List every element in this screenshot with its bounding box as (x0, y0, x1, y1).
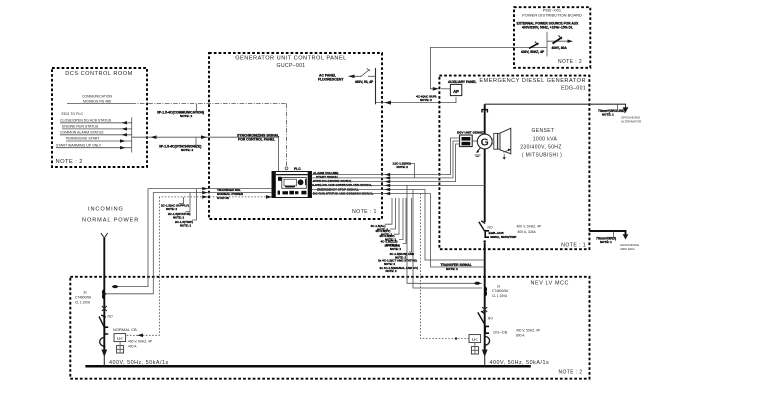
svg-text:GENERATOR UNIT CONTROL PANE: GENERATOR UNIT CONTROL PANEL (235, 56, 347, 62)
svg-text:ENGINE RUN STATUS: ENGINE RUN STATUS (62, 124, 99, 128)
test point X incoming (102, 306, 107, 311)
undervoltage release U< box DG (469, 335, 481, 343)
svg-text:400 V, 50HZ, 4P: 400 V, 50HZ, 4P (128, 339, 153, 343)
PDB power distribution board box (514, 7, 590, 68)
svg-text:CT4800/5A: CT4800/5A (75, 295, 92, 299)
svg-text:U<: U< (117, 336, 123, 341)
wire ECM to G (472, 140, 477, 142)
riser normal CB to busbar (103, 356, 105, 366)
svg-text:400V/230V, 50HZ, +10%/–15% DL: 400V/230V, 50HZ, +10%/–15% DL (522, 26, 573, 30)
GUCP generator unit control panel box (209, 53, 382, 219)
svg-text:( MITSUBISHI ): ( MITSUBISHI ) (522, 153, 562, 159)
svg-text:NOTE: 2: NOTE: 2 (180, 224, 191, 228)
EDG emergency diesel generator box (439, 76, 589, 250)
diesel engine horn (500, 128, 511, 154)
wire L3 dashed PLC left to normal UV release (159, 196, 272, 198)
fuse-switch PDB left (512, 47, 547, 49)
wire w2 PLC to ECM (312, 141, 460, 178)
svg-text:FOR CONTROL PANEL: FOR CONTROL PANEL (238, 138, 275, 142)
svg-text:NOTE: 2: NOTE: 2 (420, 98, 432, 102)
arrows into GUCP right edge (385, 173, 391, 195)
svg-text:EMERGENCY DIESEL GENERATOR: EMERGENCY DIESEL GENERATOR (479, 78, 586, 84)
svg-text:400V, 50, 4P: 400V, 50, 4P (355, 80, 374, 84)
svg-text:DCS CONTROL ROOM: DCS CONTROL ROOM (65, 71, 132, 77)
node PDB riser (546, 32, 548, 57)
svg-text:NO: NO (488, 317, 493, 321)
engine control module box (460, 135, 473, 147)
engine ground (503, 154, 505, 158)
arc on DG CB line (485, 337, 489, 345)
svg-text:EDG–001: EDG–001 (561, 85, 586, 91)
svg-text:400 V, 50HZ, 4P: 400 V, 50HZ, 4P (516, 328, 541, 332)
heavy generator feeder riser (484, 104, 486, 222)
wire PDB line to AP (441, 88, 450, 90)
engine inner arrow (503, 150, 509, 153)
svg-text:GENSET: GENSET (532, 128, 555, 134)
arrow down to busbar DG (484, 346, 486, 350)
svg-text:NOTE : 2: NOTE : 2 (56, 159, 83, 165)
wire PDB to auxiliary panel (430, 47, 514, 88)
CT hooks incoming (103, 290, 104, 299)
node DCS signal bus (131, 117, 133, 152)
svg-text:400V, 50HZ, 4P: 400V, 50HZ, 4P (521, 50, 545, 54)
svg-text:AP: AP (453, 89, 459, 94)
svg-text:NOTE: 2: NOTE: 2 (386, 269, 397, 273)
wire grounding 400V EDG (589, 231, 625, 235)
arrow into GUCP at feed (385, 101, 392, 105)
fuse-switch AC panel supply (349, 75, 376, 77)
svg-text:NOTE: 2: NOTE: 2 (446, 267, 458, 271)
wire grounding alternator (485, 104, 626, 108)
svg-text:POWER DISTRIBUTION BOARD: POWER DISTRIBUTION BOARD (522, 13, 582, 18)
svg-text:NOTE : 1: NOTE : 1 (561, 243, 586, 249)
undervoltage release U< box (114, 334, 126, 342)
svg-text:NOTE: 1: NOTE: 1 (602, 112, 614, 116)
wire drop A to DG CT line (407, 185, 482, 283)
svg-text:FLUORESCENT: FLUORESCENT (318, 78, 344, 82)
node junction incoming CT (104, 293, 106, 295)
svg-text:4000A, 50/50/TRIP: 4000A, 50/50/TRIP (490, 235, 516, 239)
svg-text:NEV LV MCC: NEV LV MCC (531, 281, 570, 287)
fuse-switch PDB right (547, 40, 571, 42)
svg-text:GUCP–001: GUCP–001 (277, 63, 306, 69)
breaker DG-CB blade (478, 311, 485, 324)
svg-text:NOTE: 2: NOTE: 2 (397, 165, 409, 169)
svg-text:CL 1 15VA: CL 1 15VA (492, 294, 508, 298)
svg-text:NOTE : 2: NOTE : 2 (559, 370, 583, 376)
svg-text:400V, 50Hz, 50kA/1s: 400V, 50Hz, 50kA/1s (490, 360, 550, 366)
svg-text:230/400V, 50HZ: 230/400V, 50HZ (520, 144, 562, 150)
svg-text:CL 1 15VA: CL 1 15VA (75, 300, 91, 304)
svg-text:G: G (481, 136, 489, 148)
auxiliary panel AP box (450, 84, 461, 95)
riser DG CB to busbar (484, 356, 486, 366)
svg-text:NOTE : 1: NOTE : 1 (352, 209, 377, 215)
wire synchronizing DCS to GUCP (132, 137, 279, 171)
svg-text:NOTE: 2: NOTE: 2 (181, 148, 193, 152)
arrow into AP (433, 87, 439, 91)
wire w5 PLC to DG riser via drop (312, 190, 485, 261)
test point X DG (482, 307, 487, 312)
arrow left on sync wire (151, 135, 157, 139)
svg-text:NOTE : 2: NOTE : 2 (558, 59, 582, 65)
svg-text:400V EDG: 400V EDG (620, 247, 635, 251)
svg-text:1000 kVA: 1000 kVA (533, 136, 558, 142)
svg-text:STATUS: STATUS (217, 196, 229, 200)
node contact dot (483, 240, 486, 243)
svg-text:CLOSE/OPEN DG ACB STATUS: CLOSE/OPEN DG ACB STATUS (60, 118, 112, 122)
trip coil symbol DG (471, 347, 478, 354)
svg-text:COMMUNICATION: COMMUNICATION (82, 95, 113, 99)
wire AP feed into GUCP (376, 97, 457, 103)
breaker DG-ACB jaw (485, 231, 489, 237)
breaker DG-CB jaw (485, 326, 489, 333)
arrow down to busbar normal (103, 346, 105, 350)
wire drop B to DG CT line lower (413, 190, 482, 289)
svg-text:NOTE: 2: NOTE: 2 (390, 247, 401, 251)
svg-text:COMMON ALARM STATUS: COMMON ALARM STATUS (60, 130, 104, 134)
coupling between G and engine (494, 133, 498, 149)
wire w4 PLC to DG riser (312, 184, 485, 186)
breaker normal CB jaw (104, 327, 108, 334)
svg-text:MODBUS RS 485: MODBUS RS 485 (83, 99, 111, 103)
DG feeder into MCC (484, 243, 486, 286)
arc on normal CB line (100, 338, 104, 346)
svg-text:NO: NO (488, 225, 493, 229)
wire w3 PLC to ECM (312, 144, 460, 182)
wire L1 PLC left to MCC (112, 189, 272, 287)
svg-text:800 A: 800 A (516, 334, 525, 338)
svg-text:800 A, 32kA: 800 A, 32kA (518, 230, 537, 234)
svg-text:NORMAL CB: NORMAL CB (113, 327, 137, 332)
svg-text:EDG TO PLC: EDG TO PLC (62, 112, 84, 116)
svg-text:DG–CB: DG–CB (493, 329, 507, 334)
wire L2 PLC left to incoming CT (106, 193, 273, 294)
svg-text:EGV UNIT GENSET: EGV UNIT GENSET (457, 131, 485, 135)
wire w6 PLC transfer signal to DG riser (312, 194, 485, 267)
svg-text:PLC: PLC (294, 167, 301, 171)
svg-text:CLOSE DG ACB COMMAND AND SIGNA: CLOSE DG ACB COMMAND AND SIGNAL (311, 183, 372, 187)
svg-text:INCOMING: INCOMING (88, 206, 124, 212)
node junction dot DG UV (455, 337, 457, 339)
svg-text:400 V, 50HZ, 4P: 400 V, 50HZ, 4P (517, 224, 542, 228)
svg-text:NORMAL POWER: NORMAL POWER (82, 218, 139, 224)
incoming feeder line (103, 238, 105, 286)
svg-text:400 A: 400 A (128, 345, 137, 349)
arrow right on sync wire (201, 135, 207, 139)
PLC controller box (272, 172, 312, 198)
incoming supply marker (101, 233, 108, 240)
svg-text:START WARMING UP ONLY: START WARMING UP ONLY (56, 143, 102, 147)
svg-text:3x: 3x (83, 291, 87, 295)
busbar (85, 365, 530, 368)
wire modbus underline (67, 102, 132, 104)
svg-text:2x: 2x (497, 284, 501, 288)
svg-text:NOTE: 2: NOTE: 2 (173, 215, 184, 219)
generator neutral ground arrow (477, 148, 481, 153)
wire modbus RS485 to PLC (132, 102, 287, 104)
MCC box NEV LV MCC (70, 277, 589, 379)
svg-text:400V, 30A: 400V, 30A (552, 46, 568, 50)
wire w1 PLC to ECM (312, 138, 460, 175)
svg-text:NO: NO (108, 314, 113, 318)
breaker normal CB blade (99, 315, 106, 328)
trip coil symbol (117, 346, 124, 353)
svg-text:NOTE: 1: NOTE: 1 (600, 240, 612, 244)
node modbus connector circle at PLC (285, 167, 288, 170)
svg-text:U<: U< (472, 337, 478, 342)
svg-text:PERMISSIVE START: PERMISSIVE START (66, 137, 100, 141)
drawout contact symbol top (482, 110, 487, 113)
CT hooks DG (485, 287, 486, 296)
svg-text:ALTERNATOR: ALTERNATOR (621, 120, 642, 124)
ac panel feeder busbar (375, 68, 377, 104)
svg-text:NOTE: 2: NOTE: 2 (166, 207, 177, 211)
DCS control room box (52, 68, 147, 167)
wire drop dashed to DG UV release (421, 194, 470, 339)
svg-text:AUXILIARY PANEL: AUXILIARY PANEL (448, 80, 477, 84)
generator G1 circle (477, 134, 492, 149)
svg-text:NOTE: 2: NOTE: 2 (180, 114, 192, 118)
breaker DG-ACB blade (479, 221, 485, 231)
svg-text:CT4800/5A: CT4800/5A (492, 289, 509, 293)
